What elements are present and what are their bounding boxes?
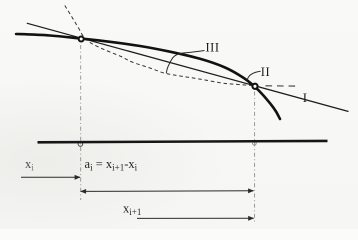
arrow x_i+1 dimension	[137, 217, 254, 219]
node axis small circle at x_i+1	[253, 142, 257, 146]
node axis small circle at x_i	[78, 142, 83, 147]
leader line for label III	[166, 51, 204, 74]
leader line for label II	[247, 71, 260, 80]
curve II dashed horizontal extension right of point 2	[266, 85, 297, 87]
arrow x_i dimension	[21, 176, 80, 178]
curve III thick function curve	[16, 34, 280, 119]
svg-text:xi+1: xi+1	[123, 202, 141, 218]
line I secant straight line	[27, 23, 349, 111]
svg-text:III: III	[206, 40, 220, 54]
svg-text:ai = xi+1-xi: ai = xi+1-xi	[85, 157, 138, 173]
arrow a_i double dimension	[81, 190, 254, 193]
wire vertical dash-dot at x_i	[80, 45, 82, 200]
node open circle point (x_i, y_i)	[79, 37, 84, 42]
svg-text:I: I	[303, 91, 307, 105]
svg-text:II: II	[261, 65, 270, 79]
svg-text:xi: xi	[25, 157, 34, 173]
wire vertical dash-dot at x_i+1	[254, 92, 256, 225]
node open circle point (x_i+1, y_i+1)	[252, 84, 257, 89]
curve II dashed interpolation curve	[65, 6, 254, 86]
wire x-axis	[38, 141, 328, 142]
